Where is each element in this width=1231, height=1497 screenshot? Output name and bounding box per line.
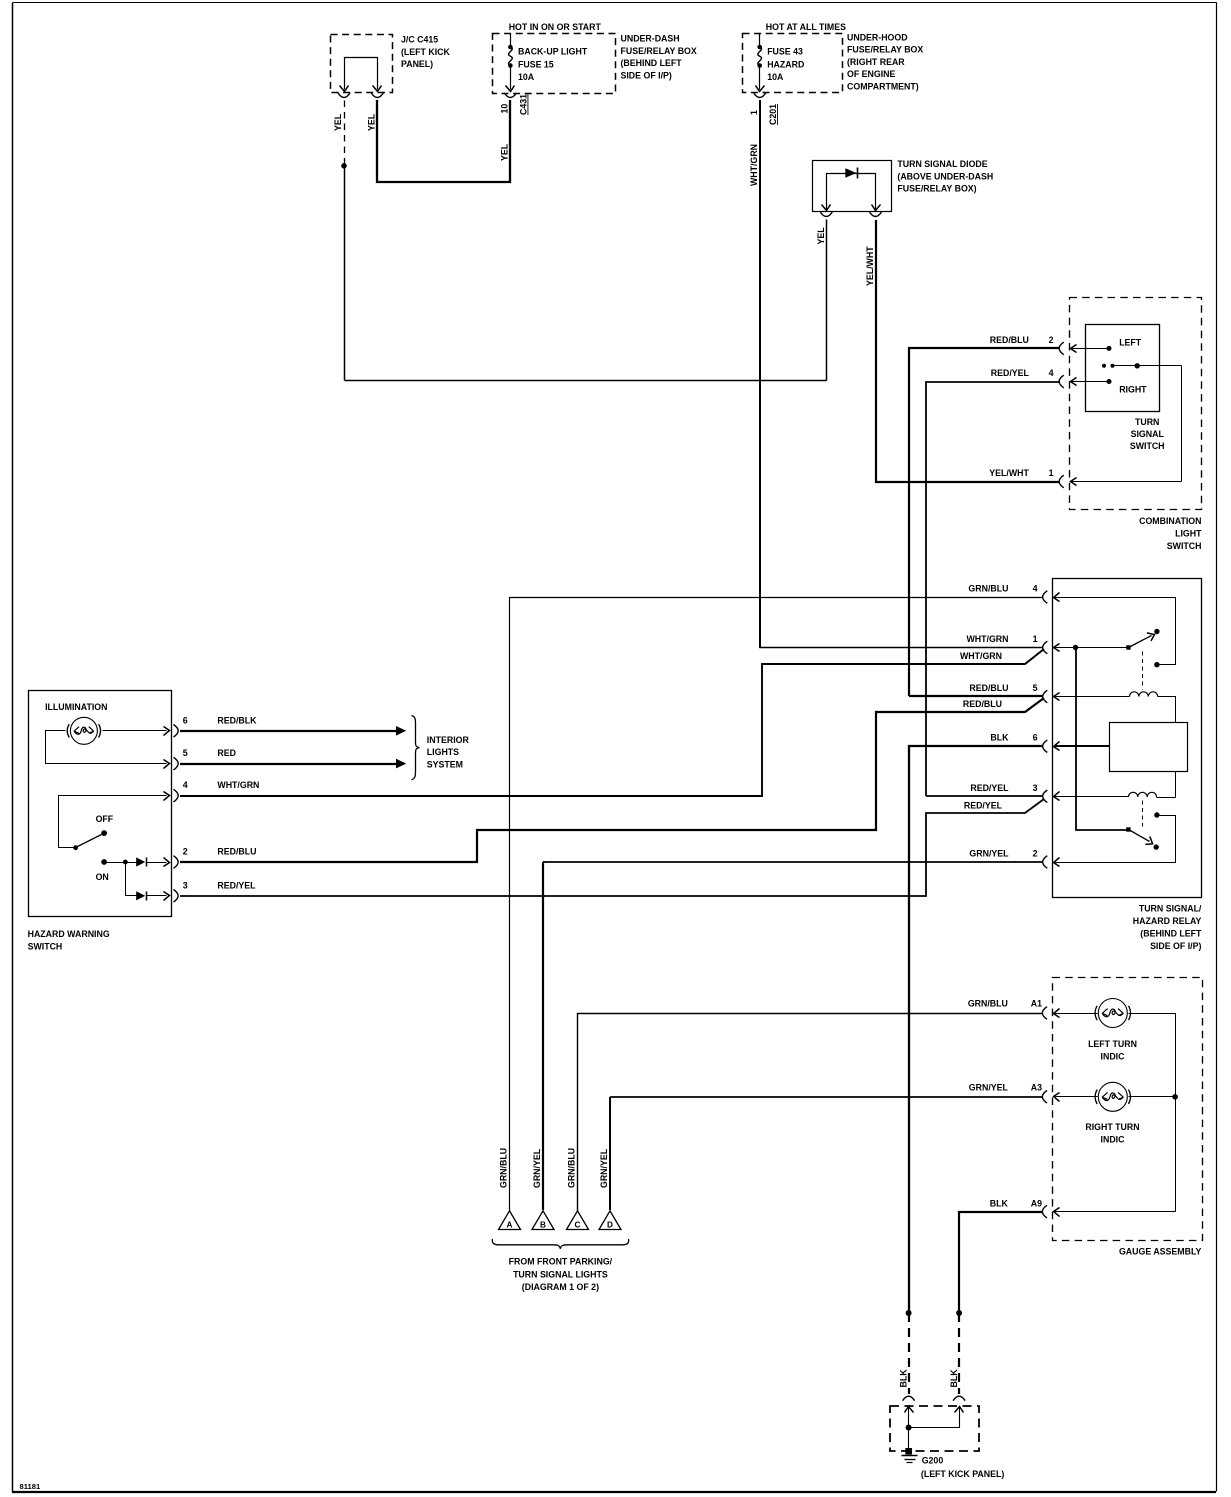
under-hood fuse/relay box xyxy=(743,34,843,93)
wire RED/BLK to interior lights xyxy=(180,730,396,732)
svg-text:FUSE 43: FUSE 43 xyxy=(767,46,803,56)
page border frame xyxy=(13,2,1217,4)
gauge pin A3 arrow xyxy=(1054,1093,1060,1102)
svg-text:A1: A1 xyxy=(1031,999,1042,1009)
G200 junction box xyxy=(890,1406,979,1451)
ground G200 symbol xyxy=(905,1448,912,1455)
svg-text:COMPARTMENT): COMPARTMENT) xyxy=(847,81,919,91)
wire GRN/YEL to gauge A3 xyxy=(610,1096,1042,1098)
diode internal wire xyxy=(827,174,876,210)
hazard diode D2 xyxy=(136,857,145,866)
svg-text:YEL: YEL xyxy=(333,113,343,131)
brace from front parking xyxy=(492,1239,628,1249)
wire GRN/BLU triangle A to relay pin 4 xyxy=(510,598,1043,1211)
svg-text:(LEFT KICK PANEL): (LEFT KICK PANEL) xyxy=(921,1469,1004,1479)
svg-text:(BEHIND LEFT: (BEHIND LEFT xyxy=(1140,929,1202,939)
hazard pin 5 arrow xyxy=(164,760,170,769)
G200 internal junction dot xyxy=(906,1425,912,1431)
J/C C415 right pin connector cup xyxy=(371,93,383,98)
relay pin 4 internal wire xyxy=(1054,598,1176,665)
wire GRN/BLU triangle C to gauge A1 xyxy=(578,1014,1043,1211)
comb switch pin 4 contact wire xyxy=(1071,381,1110,383)
gauge common junction dot xyxy=(1172,1094,1178,1100)
relay pin 4 connector cup xyxy=(1043,591,1048,604)
comb switch pin 2 arrow xyxy=(1071,345,1077,353)
svg-text:HOT AT ALL TIMES: HOT AT ALL TIMES xyxy=(766,22,846,32)
relay dashed link top xyxy=(1142,652,1144,690)
relay top switch upper contact dot xyxy=(1154,629,1159,634)
diode left pin connector cup xyxy=(820,212,832,217)
relay internal wire to pin 2 xyxy=(1054,816,1176,863)
wire GRN/YEL triangle B vertical xyxy=(542,862,544,1210)
comb switch common wire xyxy=(1113,365,1182,367)
hazard diode D3 to pin 3 xyxy=(147,895,167,897)
svg-text:YEL/WHT: YEL/WHT xyxy=(865,246,875,286)
svg-text:TURN: TURN xyxy=(1135,417,1159,427)
svg-text:3: 3 xyxy=(1033,783,1038,793)
illumination bulb xyxy=(70,717,97,744)
hazard ON junction dot xyxy=(123,860,128,865)
fuse 15 BACK-UP LIGHT 10A symbol xyxy=(510,34,512,46)
svg-text:J/C C415: J/C C415 xyxy=(401,35,438,45)
hazard pin 6 connector cup xyxy=(174,725,179,738)
relay pin 5 arrow xyxy=(1054,693,1060,701)
relay bottom switch pivot xyxy=(1126,827,1130,831)
svg-text:5: 5 xyxy=(1033,683,1038,693)
svg-text:RED: RED xyxy=(217,748,236,758)
wire BLK dashed right to G200 xyxy=(958,1313,960,1394)
relay flasher to coil L2 wire xyxy=(1175,772,1177,798)
wire YEL from J/C C415 right pin to fuse 15 xyxy=(377,100,510,182)
svg-text:10A: 10A xyxy=(518,72,535,82)
relay coil L2 xyxy=(1128,792,1156,797)
J/C C415 left pin arrow xyxy=(340,86,349,92)
junction dot BLK left xyxy=(906,1310,912,1316)
svg-text:10A: 10A xyxy=(767,72,784,82)
hazard ON wire xyxy=(105,862,137,864)
svg-text:INTERIOR: INTERIOR xyxy=(427,735,470,745)
svg-text:(RIGHT REAR: (RIGHT REAR xyxy=(847,57,905,67)
wire YEL solid down xyxy=(344,166,346,381)
svg-text:1: 1 xyxy=(1033,634,1038,644)
hazard pin 3 arrow xyxy=(164,892,170,901)
svg-text:PANEL): PANEL) xyxy=(401,59,433,69)
hazard pin 5 connector cup xyxy=(174,757,179,770)
connector triangle C xyxy=(567,1211,589,1230)
relay pin 2 connector cup xyxy=(1043,856,1048,869)
svg-text:GRN/YEL: GRN/YEL xyxy=(532,1148,542,1188)
turn signal hazard relay box xyxy=(1053,579,1202,898)
svg-text:GRN/BLU: GRN/BLU xyxy=(968,999,1008,1009)
wire RED/YEL to comb switch pin 4 xyxy=(926,382,1059,796)
svg-text:YEL: YEL xyxy=(816,227,826,245)
svg-text:YEL: YEL xyxy=(366,113,376,131)
gauge A1 bulb to common xyxy=(1129,1014,1176,1212)
wire YEL/WHT from diode right pin xyxy=(876,220,1059,482)
svg-text:6: 6 xyxy=(183,715,188,725)
svg-text:FUSE/RELAY BOX: FUSE/RELAY BOX xyxy=(847,45,923,55)
svg-text:C431: C431 xyxy=(519,94,529,115)
hazard branch wire down xyxy=(126,863,137,896)
junction dot BLK right xyxy=(956,1310,962,1316)
svg-text:GRN/YEL: GRN/YEL xyxy=(599,1148,609,1188)
comb switch common wire down xyxy=(1181,366,1183,482)
svg-text:1: 1 xyxy=(749,110,759,115)
gauge assembly box xyxy=(1053,978,1203,1241)
wire RED to interior lights xyxy=(180,763,396,765)
relay pin 4 arrow xyxy=(1054,593,1060,602)
relay dashed link bottom xyxy=(1142,801,1144,827)
bulb to pin 5 wire xyxy=(46,731,167,764)
svg-text:RED/YEL: RED/YEL xyxy=(217,880,256,890)
svg-text:2: 2 xyxy=(183,847,188,857)
relay pin 3 internal wire xyxy=(1054,796,1129,798)
relay pin 6 internal wire xyxy=(1054,745,1109,747)
svg-text:GRN/YEL: GRN/YEL xyxy=(969,1082,1009,1092)
hazard diode D3 xyxy=(136,891,145,900)
wire RED/YEL hazard sw to relay pin 3 branch xyxy=(180,799,1044,896)
comb switch pin 4 arrow xyxy=(1071,378,1077,386)
svg-text:INDIC: INDIC xyxy=(1101,1051,1126,1061)
svg-text:ILLUMINATION: ILLUMINATION xyxy=(45,702,107,712)
svg-text:FROM FRONT PARKING/: FROM FRONT PARKING/ xyxy=(509,1257,613,1267)
svg-text:WHT/GRN: WHT/GRN xyxy=(966,634,1008,644)
svg-text:RED/BLU: RED/BLU xyxy=(963,699,1002,709)
relay pin 2 arrow xyxy=(1054,858,1060,867)
turn signal switch box xyxy=(1086,325,1160,412)
relay pin 1 arrow xyxy=(1054,644,1060,652)
wire YEL dashed from J/C C415 left pin xyxy=(344,101,346,166)
svg-text:GAUGE ASSEMBLY: GAUGE ASSEMBLY xyxy=(1119,1246,1202,1256)
relay pin 5 connector cup xyxy=(1043,690,1048,703)
svg-text:RED/YEL: RED/YEL xyxy=(964,801,1003,811)
gauge A3 wire to bulb xyxy=(1054,1096,1098,1098)
svg-text:C: C xyxy=(575,1220,581,1229)
gauge pin A9 arrow xyxy=(1054,1208,1060,1217)
svg-text:SWITCH: SWITCH xyxy=(1167,541,1202,551)
svg-text:RIGHT TURN: RIGHT TURN xyxy=(1085,1122,1139,1132)
hazard diode D2 to pin 2 xyxy=(147,862,167,864)
wire RED/BLU comb sw to relay pin 5 xyxy=(909,695,1043,697)
svg-text:B: B xyxy=(540,1220,546,1229)
wire WHT/GRN fuse to relay pin 1 xyxy=(760,647,1043,649)
wire WHT/GRN hazard sw to relay pin 1 branch xyxy=(180,649,1044,796)
svg-text:4: 4 xyxy=(1033,584,1038,594)
svg-text:2: 2 xyxy=(1049,335,1054,345)
gauge pin A1 connector cup xyxy=(1042,1007,1047,1020)
svg-text:UNDER-DASH: UNDER-DASH xyxy=(621,34,680,44)
svg-text:WHT/GRN: WHT/GRN xyxy=(217,780,259,790)
comb switch pin 1 arrow xyxy=(1071,478,1077,486)
svg-text:SIDE OF I/P): SIDE OF I/P) xyxy=(621,71,672,81)
svg-text:LEFT TURN: LEFT TURN xyxy=(1088,1039,1137,1049)
relay bottom switch blade xyxy=(1129,830,1150,842)
gauge pin A1 arrow xyxy=(1054,1009,1060,1018)
relay internal common wire xyxy=(1076,648,1128,830)
hazard pin 4 arrow xyxy=(164,792,170,801)
svg-text:BLK: BLK xyxy=(990,733,1009,743)
comb switch pin 4 connector cup xyxy=(1059,375,1064,388)
svg-text:RED/BLU: RED/BLU xyxy=(969,683,1008,693)
svg-text:SWITCH: SWITCH xyxy=(28,942,63,952)
relay bottom switch lower contact dot xyxy=(1154,844,1159,849)
svg-text:A9: A9 xyxy=(1031,1198,1042,1208)
wire BLK gauge A9 to G200 xyxy=(959,1212,1042,1313)
J/C C415 right pin arrow xyxy=(373,86,382,92)
relay top switch lower contact dot xyxy=(1154,662,1159,667)
svg-text:TURN SIGNAL LIGHTS: TURN SIGNAL LIGHTS xyxy=(513,1269,608,1279)
comb switch pin 4 contact dot xyxy=(1107,379,1112,384)
svg-text:(LEFT KICK: (LEFT KICK xyxy=(401,47,451,57)
svg-text:RED/BLU: RED/BLU xyxy=(217,847,256,857)
svg-text:OFF: OFF xyxy=(96,814,114,824)
relay flasher unit box xyxy=(1110,723,1188,772)
relay top switch blade xyxy=(1129,636,1152,648)
G200 right pin arrow xyxy=(955,1407,964,1413)
svg-text:FUSE/RELAY BOX): FUSE/RELAY BOX) xyxy=(897,184,976,194)
svg-text:RED/YEL: RED/YEL xyxy=(991,368,1030,378)
J/C C415 internal jumper wire xyxy=(345,58,378,90)
relay pin 1 connector cup xyxy=(1043,641,1048,654)
svg-text:HAZARD: HAZARD xyxy=(767,59,804,69)
svg-text:OF ENGINE: OF ENGINE xyxy=(847,69,896,79)
comb switch common dot xyxy=(1135,363,1140,368)
wire GRN/YEL triangle D vertical xyxy=(609,1097,611,1210)
relay pin 6 connector cup xyxy=(1043,740,1048,753)
relay top switch pivot xyxy=(1126,645,1130,649)
wire RED/BLU hazard sw to relay pin 5 branch xyxy=(180,698,1044,862)
svg-text:COMBINATION: COMBINATION xyxy=(1139,516,1201,526)
svg-text:HOT IN ON OR START: HOT IN ON OR START xyxy=(509,22,602,32)
G200 left connector cup xyxy=(903,1396,915,1401)
svg-text:D: D xyxy=(607,1220,613,1229)
gauge A9 internal wire xyxy=(1054,1211,1176,1213)
comb switch pin 1 connector cup xyxy=(1059,475,1064,488)
gauge pin A9 connector cup xyxy=(1042,1205,1047,1218)
gauge A3 bulb link xyxy=(1129,1096,1176,1098)
diode right pin connector cup xyxy=(870,212,882,217)
svg-text:BLK: BLK xyxy=(990,1198,1009,1208)
svg-text:(ABOVE UNDER-DASH: (ABOVE UNDER-DASH xyxy=(897,171,993,181)
svg-text:FUSE 15: FUSE 15 xyxy=(518,59,554,69)
comb switch wire to pin 1 xyxy=(1071,481,1182,483)
svg-text:3: 3 xyxy=(183,880,188,890)
svg-text:A3: A3 xyxy=(1031,1082,1042,1092)
svg-text:SYSTEM: SYSTEM xyxy=(427,759,463,769)
svg-text:A: A xyxy=(507,1220,513,1229)
svg-text:4: 4 xyxy=(183,780,188,790)
wire RED/BLU to comb switch pin 2 xyxy=(909,348,1059,696)
svg-text:2: 2 xyxy=(1033,849,1038,859)
hazard pin 2 arrow xyxy=(164,858,170,867)
junction connector J/C C415 box xyxy=(331,35,393,93)
hazard pin 4 connector cup xyxy=(174,789,179,802)
interior lights brace xyxy=(412,716,420,780)
svg-text:UNDER-HOOD: UNDER-HOOD xyxy=(847,33,908,43)
wire BLK dashed to G200 xyxy=(908,1313,910,1394)
comb switch wiper contact dots xyxy=(1102,364,1106,368)
fuse 43 HAZARD 10A symbol xyxy=(759,34,761,46)
J/C C415 left pin connector cup xyxy=(338,93,350,98)
comb switch pin 2 contact wire xyxy=(1071,348,1110,350)
combination light switch box xyxy=(1070,298,1202,510)
svg-text:YEL: YEL xyxy=(500,143,510,161)
svg-text:GRN/YEL: GRN/YEL xyxy=(969,849,1009,859)
svg-text:TURN SIGNAL DIODE: TURN SIGNAL DIODE xyxy=(897,159,987,169)
svg-text:C201: C201 xyxy=(768,104,778,125)
diode box right pin arrow xyxy=(872,205,881,211)
gauge pin A3 connector cup xyxy=(1042,1091,1047,1104)
relay pin 5 internal wire xyxy=(1054,696,1130,698)
svg-text:INDIC: INDIC xyxy=(1101,1134,1126,1144)
wire YEL horizontal run to diode xyxy=(345,380,827,382)
G200 left pin arrow xyxy=(905,1407,914,1413)
svg-text:RED/BLU: RED/BLU xyxy=(990,335,1029,345)
svg-text:WHT/GRN: WHT/GRN xyxy=(749,144,759,186)
hazard pin 3 connector cup xyxy=(174,890,179,903)
svg-text:RED/BLK: RED/BLK xyxy=(217,715,257,725)
comb switch pin 2 contact dot xyxy=(1107,346,1112,351)
svg-text:BACK-UP LIGHT: BACK-UP LIGHT xyxy=(518,46,588,56)
svg-text:10: 10 xyxy=(500,104,510,114)
svg-text:LEFT: LEFT xyxy=(1119,337,1142,347)
wire YEL from diode left pin xyxy=(826,220,828,381)
right turn indicator bulb xyxy=(1098,1082,1127,1111)
diode box left pin arrow xyxy=(822,205,831,211)
relay coil L2 right link xyxy=(1157,797,1176,799)
G200 internal wires xyxy=(908,1407,910,1450)
svg-text:(BEHIND LEFT: (BEHIND LEFT xyxy=(621,58,683,68)
wire GRN/YEL to relay pin 2 xyxy=(543,861,1043,863)
svg-text:1: 1 xyxy=(1049,468,1054,478)
svg-text:YEL/WHT: YEL/WHT xyxy=(989,468,1029,478)
wire RED/YEL comb sw to relay pin 3 xyxy=(926,795,1043,797)
under-hood box pin connector cup xyxy=(754,93,766,98)
relay pin 3 arrow xyxy=(1054,792,1060,801)
junction dot on YEL wire xyxy=(341,163,347,169)
relay pin 3 connector cup xyxy=(1043,790,1048,803)
svg-text:GRN/BLU: GRN/BLU xyxy=(567,1148,577,1188)
svg-text:LIGHT: LIGHT xyxy=(1175,529,1202,539)
svg-text:4: 4 xyxy=(1049,368,1054,378)
svg-text:5: 5 xyxy=(183,748,188,758)
svg-text:WHT/GRN: WHT/GRN xyxy=(960,651,1002,661)
svg-text:BLK: BLK xyxy=(898,1369,908,1388)
svg-text:6: 6 xyxy=(1033,733,1038,743)
svg-text:HAZARD WARNING: HAZARD WARNING xyxy=(28,929,110,939)
svg-text:RED/YEL: RED/YEL xyxy=(970,783,1009,793)
connector triangle D xyxy=(599,1211,621,1230)
relay internal junction dot xyxy=(1073,645,1078,650)
svg-text:RIGHT: RIGHT xyxy=(1119,385,1147,395)
under-dash box pin connector cup xyxy=(504,93,516,98)
svg-text:(DIAGRAM 1 OF 2): (DIAGRAM 1 OF 2) xyxy=(522,1282,599,1292)
hazard pin 2 connector cup xyxy=(174,856,179,869)
svg-text:GRN/BLU: GRN/BLU xyxy=(968,584,1008,594)
hazard switch blade xyxy=(76,835,102,848)
svg-text:SIDE OF I/P): SIDE OF I/P) xyxy=(1150,941,1201,951)
relay coil L1 to flasher unit xyxy=(1158,697,1176,723)
under-dash fuse/relay box xyxy=(493,34,616,94)
hazard switch ON contact dot xyxy=(101,859,107,865)
gauge A1 wire to bulb xyxy=(1054,1013,1098,1015)
svg-text:LIGHTS: LIGHTS xyxy=(427,747,459,757)
comb switch pin 2 connector cup xyxy=(1059,342,1064,355)
svg-text:ON: ON xyxy=(96,872,109,882)
connector triangle A xyxy=(499,1211,521,1230)
wire WHT/GRN from fuse 43 down xyxy=(759,100,761,648)
hazard warning switch box xyxy=(29,691,172,917)
svg-text:HAZARD RELAY: HAZARD RELAY xyxy=(1133,916,1202,926)
relay pin 1 internal wire xyxy=(1054,647,1129,649)
wire BLK relay pin 6 to G200 xyxy=(909,746,1043,1313)
left turn indicator bulb xyxy=(1098,999,1127,1028)
connector triangle B xyxy=(532,1211,554,1230)
svg-text:SIGNAL: SIGNAL xyxy=(1131,429,1165,439)
relay coil L1 xyxy=(1130,692,1158,697)
relay pin 6 arrow xyxy=(1054,742,1060,751)
relay bottom switch upper contact dot xyxy=(1154,812,1159,817)
hazard switch pivot dot xyxy=(73,845,78,850)
svg-text:G200: G200 xyxy=(922,1455,944,1465)
diode D1 symbol xyxy=(845,168,856,178)
svg-text:81181: 81181 xyxy=(20,1482,41,1491)
hazard switch OFF contact dot xyxy=(101,830,107,836)
bulb to pin 6 wire xyxy=(103,730,167,732)
svg-text:FUSE/RELAY BOX: FUSE/RELAY BOX xyxy=(621,46,697,56)
hazard switch pin 4 wire xyxy=(59,796,167,848)
turn signal diode box xyxy=(813,161,892,212)
svg-text:BLK: BLK xyxy=(949,1369,959,1388)
svg-text:TURN SIGNAL/: TURN SIGNAL/ xyxy=(1139,904,1202,914)
svg-text:GRN/BLU: GRN/BLU xyxy=(499,1148,509,1188)
svg-text:SWITCH: SWITCH xyxy=(1130,441,1165,451)
hazard pin 6 arrow xyxy=(164,727,170,736)
G200 right connector cup xyxy=(953,1396,965,1401)
